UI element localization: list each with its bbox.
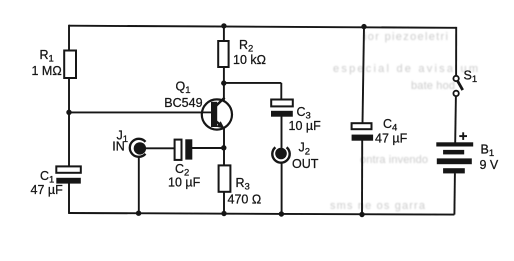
svg-text:10 µF: 10 µF [168,175,201,189]
battery B1 plate 1 long [436,142,473,146]
jack J2 sleeve arc [272,147,289,162]
node bottom rail / C4 [359,212,364,217]
svg-text:1 MΩ: 1 MΩ [32,64,62,78]
node base / R1-C1 [66,110,71,115]
switch S1 upper contact [453,76,458,81]
wire J1 sleeve to bottom rail [138,157,140,213]
battery B1 plate 4 short [443,168,465,173]
node emitter / C2 / R3 [221,145,226,150]
capacitor C1 plate top [56,166,81,172]
wire S1 to battery [454,96,457,142]
wire J1 to C2 [146,147,175,149]
capacitor C4 plate bottom [352,135,374,141]
svg-text:BC549: BC549 [164,96,202,110]
wire J2 to bottom rail [281,163,283,214]
svg-text:sms ne os garra: sms ne os garra [330,200,426,212]
transistor Q1 emitter stroke [216,121,221,125]
resistor R1 [64,51,76,79]
wire left rail upper (through R1 to base node) [68,25,70,167]
svg-text:47 µF: 47 µF [375,132,408,146]
svg-text:10 µF: 10 µF [289,119,322,133]
node collector / C3 branch [221,80,226,85]
wire C4 branch lower [361,140,363,214]
capacitor C2 plate right [185,139,192,159]
wire battery to bottom rail [453,173,456,214]
wire C2 to emitter node [192,147,224,149]
wire C4 branch upper [363,27,365,124]
node top rail / R2 [221,23,226,28]
capacitor C4 plate top [352,123,372,129]
svg-text:47 µF: 47 µF [31,183,64,197]
capacitor C2 plate left [175,140,182,160]
wire right rail upper (to S1) [455,27,457,76]
wire emitter branch (Q1 to R3) [223,128,225,167]
jack J1 tip contact [134,142,146,154]
wire C3 to J2 [281,117,283,149]
svg-text:9 V: 9 V [480,158,499,172]
transistor Q1 base wire inside body [201,111,213,113]
wire base (node A to Q1) [69,111,214,113]
jack J1 sleeve arc [130,139,146,157]
node top rail / C4 [361,24,366,29]
capacitor C1 plate bottom [56,178,81,184]
resistor R2 [218,41,228,67]
wire bottom rail [69,213,454,215]
svg-text:ior piezoeletri: ior piezoeletri [364,31,448,43]
jack J2 tip contact [275,148,287,160]
node bottom rail / R3 [221,211,226,216]
wire left rail lower (C1 to bottom rail) [68,183,70,214]
battery B1 plate 3 long [437,158,472,164]
battery B1 plate 2 short [443,150,464,155]
wire R3 to bottom rail [223,191,225,214]
node bottom rail / J2 [279,211,284,216]
transistor Q1 body circle [202,99,232,129]
transistor Q1 base bar [211,102,217,127]
battery B1 plus sign [459,132,467,140]
wire collector branch (top rail to R2, R2 to Q1) [223,26,225,42]
svg-text:OUT: OUT [292,157,319,171]
transistor Q1 emitter arrow [217,121,225,128]
transistor Q1 collector stroke [216,98,225,107]
svg-text:470 Ω: 470 Ω [228,193,262,207]
wire C3 branch vertical to C3 [280,83,282,100]
wire top rail [69,26,456,28]
svg-text:10 kΩ: 10 kΩ [233,53,266,67]
svg-text:ontra invendo: ontra invendo [360,154,428,166]
resistor R3 [219,165,231,191]
node bottom rail / J1 [136,211,141,216]
switch S1 lever [458,81,463,90]
capacitor C3 plate top [271,100,293,107]
capacitor C3 plate bottom [271,111,293,117]
switch S1 lower contact [453,91,458,96]
svg-text:IN: IN [112,140,125,154]
wire C3 branch horizontal [224,82,281,84]
svg-text:bate hod: bate hod [411,80,455,92]
